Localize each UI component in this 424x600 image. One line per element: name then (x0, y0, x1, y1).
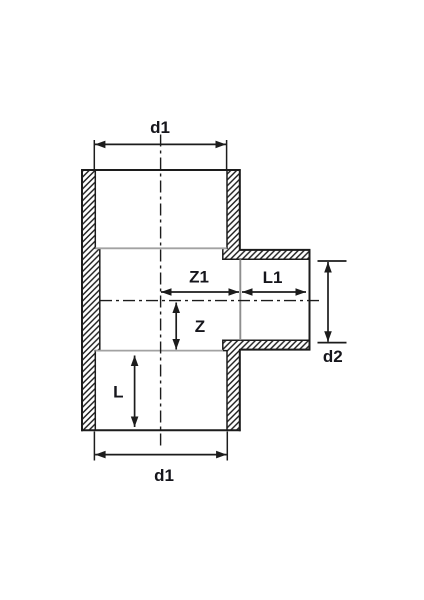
dimension L1: dimension line (242, 291, 306, 293)
branch socket shoulder line (grey, vertical) (239, 259, 241, 340)
dimension d2: extension bar bottom (318, 342, 347, 344)
socket shoulder line lower (grey) (95, 350, 223, 352)
body outline: right outer edge upper (239, 169, 241, 250)
wall right top + branch top wall: hatched L-shape (223, 170, 310, 259)
dimension d1 bottom: dimension line (95, 454, 227, 456)
dimension d1 bottom: right arrowhead (216, 451, 227, 459)
body outline: left outer edge (81, 169, 83, 431)
dimension d1 bottom: extension line right (226, 432, 228, 461)
body outline: top edge (81, 169, 240, 171)
dimension L: top arrowhead (131, 356, 139, 367)
dimension Z: top arrowhead (172, 303, 180, 314)
centerline horizontal (dash-dot) (100, 300, 322, 302)
dimension Z1: dimension line (161, 291, 239, 293)
dimension d2: dimension line (vertical) (327, 262, 329, 342)
svg-text:d2: d2 (323, 347, 343, 366)
svg-text:L1: L1 (263, 268, 283, 287)
dimension L1: left arrowhead (242, 288, 253, 296)
dimension d1 bottom: extension line left (93, 432, 95, 461)
svg-text:d1: d1 (150, 118, 170, 137)
socket shoulder line upper (grey) (95, 247, 227, 249)
svg-text:Z1: Z1 (189, 267, 209, 286)
dimension Z: bottom arrowhead (172, 339, 180, 350)
dimension L: dimension line (vertical) (134, 356, 136, 428)
svg-text:Z: Z (195, 317, 205, 336)
dimension Z: dimension line (vertical) (175, 303, 177, 350)
wall right bottom + branch bottom wall: hatched L-shape (223, 340, 310, 430)
dimension Z1: right arrowhead (229, 288, 240, 296)
dimension d2: top arrowhead (324, 262, 332, 273)
wall left: hatched cross-section of main body left wall (82, 170, 100, 430)
dimension L: bottom arrowhead (131, 417, 139, 428)
dimension d1 bottom: left arrowhead (95, 451, 106, 459)
branch outline: bottom outer edge (240, 349, 311, 351)
svg-text:d1: d1 (154, 466, 174, 485)
branch end face (309, 249, 311, 350)
dimension d2: extension bar top (318, 260, 347, 262)
dimension L1: right arrowhead (296, 288, 307, 296)
centerline vertical (dash-dot) (160, 135, 162, 449)
body outline: right outer edge lower (239, 350, 241, 432)
body outline: bottom edge (81, 429, 240, 431)
branch outline: top outer edge (240, 249, 311, 251)
dimension d1 top: extension line right (226, 140, 228, 170)
dimension d1 top: left arrowhead (95, 141, 106, 149)
dimension d1 top: extension line left (93, 140, 95, 170)
dimension d2: bottom arrowhead (324, 331, 332, 342)
dimension d1 top: dimension line (95, 143, 226, 145)
dimension Z1: left arrowhead (161, 288, 172, 296)
svg-text:L: L (113, 383, 123, 402)
dimension d1 top: right arrowhead (216, 141, 227, 149)
